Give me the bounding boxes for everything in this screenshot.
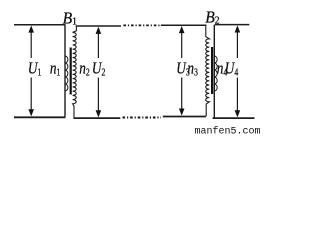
transformer B2 secondary winding n4 (straight wire with coil bumps) bbox=[214, 25, 217, 119]
wire bottom rail left (primary of B1) bbox=[14, 116, 65, 118]
voltage arrow U3 (double-headed, gap for label) bbox=[179, 26, 185, 116]
svg-text:n2: n2 bbox=[79, 59, 90, 78]
wire bottom rail dash-dot continuation bbox=[123, 117, 162, 119]
transformer B1 secondary winding n2 (dense coil) bbox=[73, 26, 77, 118]
transformer B1 core bbox=[70, 48, 72, 95]
svg-text:U1: U1 bbox=[28, 59, 41, 78]
wire top rail B1 secondary bbox=[76, 25, 121, 27]
svg-text:n3: n3 bbox=[187, 59, 198, 78]
svg-text:n1: n1 bbox=[50, 59, 61, 78]
wire bottom rail B2 primary bbox=[163, 116, 206, 118]
wire bottom rail B2 secondary bbox=[213, 117, 255, 119]
svg-text:U4: U4 bbox=[225, 59, 239, 78]
svg-text:U2: U2 bbox=[92, 59, 105, 78]
transformer B2 primary winding n3 (dense coil) bbox=[206, 25, 210, 116]
voltage arrow U1 (double-headed, gap for label) bbox=[28, 26, 34, 117]
svg-text:B1: B1 bbox=[63, 8, 77, 28]
svg-text:B2: B2 bbox=[205, 7, 219, 27]
wire top rail dash-dot continuation bbox=[123, 24, 160, 26]
voltage arrow U2 (double-headed, gap for label) bbox=[96, 27, 102, 118]
wire top rail B2 secondary bbox=[215, 24, 249, 26]
svg-text:manfen5.com: manfen5.com bbox=[195, 126, 261, 136]
wire top rail left (primary of B1) bbox=[14, 24, 65, 26]
transformer B1 primary winding n1 (straight wire with coil bumps) bbox=[65, 25, 68, 118]
transformer B2 core bbox=[211, 47, 213, 94]
wire top rail B2 primary bbox=[161, 24, 207, 26]
voltage arrow U4 (double-headed, gap for label) bbox=[235, 25, 241, 117]
wire bottom rail B1 secondary bbox=[74, 117, 121, 119]
